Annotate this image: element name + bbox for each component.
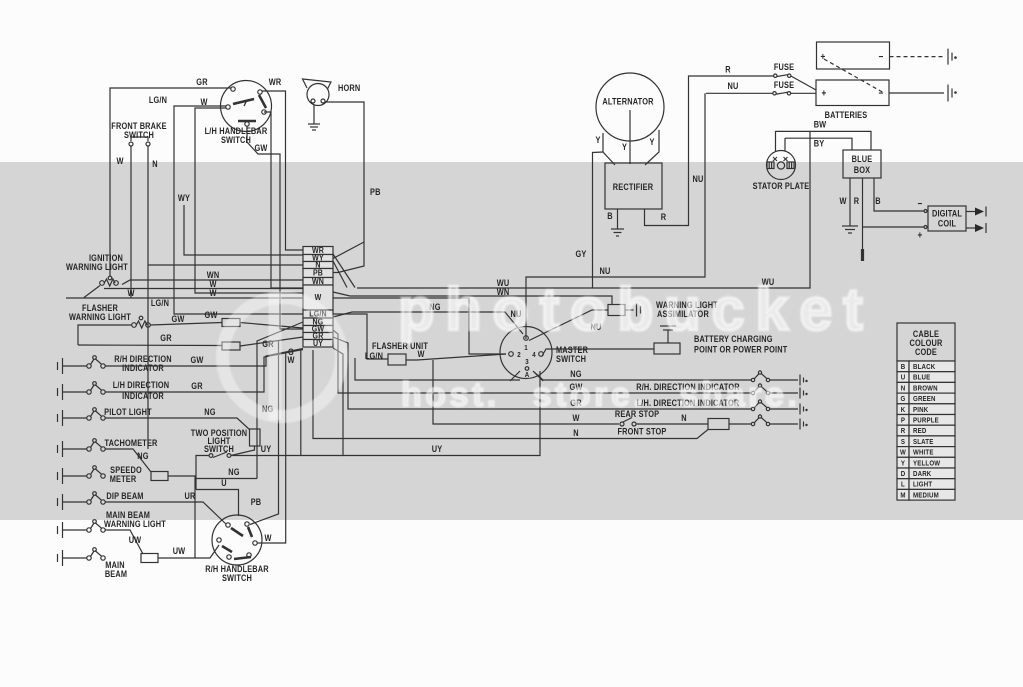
terminal strip connector block [303, 247, 333, 255]
svg-text:COIL: COIL [938, 219, 956, 229]
wire GR from L/H switch [110, 88, 231, 276]
svg-text:W: W [264, 533, 271, 543]
svg-text:ALTERNATOR: ALTERNATOR [602, 97, 653, 107]
svg-text:GR: GR [196, 77, 207, 87]
main beam row [57, 554, 59, 562]
svg-text:+: + [822, 88, 827, 99]
svg-text:R: R [901, 428, 906, 436]
svg-text:BROWN: BROWN [913, 385, 938, 393]
svg-text:WHITE: WHITE [913, 449, 934, 457]
wire N from front brake switch to strip [147, 146, 149, 449]
wire R from rectifier to fuse [645, 76, 774, 226]
warning light assimilator A1 [608, 305, 625, 316]
stator plate [767, 151, 796, 180]
svg-text:PB: PB [251, 497, 262, 507]
svg-text:RED: RED [913, 428, 926, 436]
svg-text:K: K [901, 406, 906, 414]
fuse F2 [773, 92, 776, 95]
wire NG to two position switch [105, 418, 250, 430]
svg-text:SWITCH: SWITCH [556, 354, 586, 364]
wire NU from fuse [706, 92, 773, 94]
svg-text:N: N [152, 159, 157, 169]
svg-text:LG/N: LG/N [151, 298, 169, 308]
wire UW to R/H switch [158, 545, 219, 558]
pilot light row [57, 414, 59, 422]
L/H direction indicator lamp row [57, 388, 59, 396]
wire to flasher lamp left lead [78, 325, 132, 345]
wire NG from strip to master switch [333, 312, 523, 334]
svg-text:NU: NU [728, 81, 739, 91]
svg-text:N: N [681, 413, 686, 423]
svg-text:G: G [901, 396, 906, 404]
svg-text:NG: NG [137, 451, 148, 461]
svg-text:S: S [901, 438, 905, 446]
svg-text:P: P [901, 417, 905, 425]
wire R from blue box down [862, 178, 864, 250]
battery B2 (lower) [816, 80, 889, 106]
tachometer row [57, 445, 59, 453]
wire WN to assimilator [333, 292, 612, 305]
wire GR row [105, 350, 303, 393]
svg-text:GW: GW [254, 143, 267, 153]
svg-text:−: − [879, 51, 884, 62]
svg-text:PILOT LIGHT: PILOT LIGHT [104, 407, 152, 417]
wire GR row rear L/H direction indicator [333, 337, 751, 409]
svg-text:Y: Y [595, 135, 600, 145]
svg-text:W: W [209, 288, 216, 298]
svg-text:YELLOW: YELLOW [913, 460, 941, 468]
svg-text:R: R [854, 196, 859, 206]
wire diagonal from PB riser to strip [333, 242, 364, 259]
battery B1 (upper) [817, 42, 890, 69]
svg-text:3: 3 [525, 359, 529, 367]
svg-text:WARNING LIGHT: WARNING LIGHT [66, 262, 128, 272]
svg-text:B: B [875, 196, 880, 206]
svg-text:UY: UY [313, 338, 324, 348]
wire B from blue box to coil - [874, 178, 924, 211]
horn ground [313, 105, 315, 124]
ignition lamp left lead [84, 286, 100, 298]
wire GW via connector [150, 323, 222, 326]
svg-text:WY: WY [178, 193, 191, 203]
svg-text:N: N [901, 385, 906, 393]
svg-text:WR: WR [269, 77, 282, 87]
main beam warning light row [57, 526, 59, 534]
svg-text:BATTERIES: BATTERIES [825, 110, 868, 120]
dip beam row [57, 498, 59, 506]
master switch bottom leads [510, 371, 520, 381]
wire NG from speedo [168, 476, 195, 558]
svg-text:N: N [573, 428, 578, 438]
svg-text:WARNING LIGHT: WARNING LIGHT [69, 312, 131, 322]
battery earth upper (dashed) [890, 56, 945, 58]
svg-text:U: U [221, 478, 226, 488]
svg-text:INDICATOR: INDICATOR [122, 391, 164, 401]
wire GY from alternator [593, 152, 604, 288]
svg-text:NG: NG [204, 407, 215, 417]
svg-text:DIP BEAM: DIP BEAM [106, 491, 143, 501]
svg-text:TACHOMETER: TACHOMETER [104, 438, 157, 448]
rectifier ground B [617, 209, 619, 229]
svg-text:UR: UR [185, 491, 196, 501]
svg-text:DIGITAL: DIGITAL [932, 209, 962, 219]
battery charging point socket [660, 325, 676, 327]
svg-text:W: W [127, 288, 134, 298]
svg-text:1: 1 [524, 345, 528, 353]
wire PB to R/H switch [250, 340, 279, 525]
svg-text:UY: UY [261, 444, 272, 454]
wire U to R/H handlebar switch [196, 490, 239, 517]
wire PB from horn to strip [325, 102, 364, 273]
wire from strip bottom to UY row [300, 349, 302, 456]
svg-text:W: W [116, 156, 123, 166]
wire WN to strip [122, 280, 303, 285]
svg-text:PURPLE: PURPLE [913, 417, 939, 425]
wire W lower to strip W cell [66, 297, 303, 299]
svg-text:SLATE: SLATE [913, 438, 934, 446]
svg-text:BLACK: BLACK [913, 363, 935, 371]
wire to coil + [863, 226, 925, 228]
svg-text:WARNING LIGHT: WARNING LIGHT [104, 519, 166, 529]
svg-text:UW: UW [173, 546, 186, 556]
svg-text:−: − [879, 88, 884, 99]
wire W from front brake switch [130, 146, 132, 298]
speedo meter row [57, 472, 59, 480]
battery dashed link [824, 59, 884, 93]
wire LG/N from L/H switch to strip [174, 106, 303, 314]
wire W from R/H switch [258, 352, 286, 543]
svg-text:W: W [287, 355, 294, 365]
svg-text:host. store. share.: host. store. share. [401, 376, 800, 414]
svg-text:4: 4 [532, 352, 536, 360]
wire W from blue box to ground [849, 178, 851, 226]
rectifier U3 [605, 163, 662, 209]
wire NG horizontal [195, 478, 257, 480]
svg-text:SWITCH: SWITCH [124, 130, 154, 140]
svg-text:CODE: CODE [915, 347, 937, 357]
wire W row rear stop [433, 360, 619, 424]
svg-text:BW: BW [814, 120, 827, 130]
svg-text:R: R [725, 65, 730, 75]
svg-text:W: W [900, 449, 906, 457]
R/H handlebar switch U2 [212, 515, 262, 565]
wire to two position switch left contact [196, 456, 209, 490]
svg-text:photobucket: photobucket [398, 276, 873, 343]
wire WY to strip [184, 205, 303, 255]
svg-text:R: R [661, 212, 666, 222]
svg-text:GR: GR [160, 333, 171, 343]
svg-text:W: W [839, 196, 846, 206]
svg-text:FUSE: FUSE [774, 62, 795, 72]
svg-text:L: L [901, 481, 905, 489]
svg-text:POINT OR POWER POINT: POINT OR POWER POINT [694, 345, 787, 355]
wire W from L/H switch right pin [264, 112, 303, 288]
svg-text:UY: UY [432, 444, 443, 454]
watermark grey band [0, 162, 1023, 520]
svg-text:BLUE: BLUE [852, 154, 873, 164]
svg-text:W: W [417, 349, 424, 359]
svg-text:W: W [572, 413, 579, 423]
svg-text:RECTIFIER: RECTIFIER [613, 182, 653, 192]
svg-text:+: + [821, 51, 826, 62]
svg-text:STATOR PLATE: STATOR PLATE [753, 181, 810, 191]
svg-text:METER: METER [110, 474, 137, 484]
svg-text:BLUE: BLUE [913, 374, 931, 382]
svg-text:BY: BY [814, 139, 825, 149]
horn H1 [307, 84, 329, 106]
svg-text:HORN: HORN [338, 83, 360, 93]
svg-text:BEAM: BEAM [105, 569, 127, 579]
blue box U4 [843, 150, 881, 178]
svg-text:Y: Y [622, 142, 627, 152]
wire NG diagonal [105, 449, 151, 472]
svg-text:GREEN: GREEN [913, 396, 936, 404]
wire NG row to rear R/H indicator [355, 358, 520, 380]
svg-text:SWITCH: SWITCH [204, 444, 234, 454]
digital coil T1 [928, 206, 966, 231]
svg-text:PB: PB [370, 187, 381, 197]
battery earth lower [889, 92, 944, 94]
svg-text:SWITCH: SWITCH [222, 573, 252, 583]
wire UR to R/H switch [105, 502, 226, 524]
svg-text:NG: NG [228, 467, 239, 477]
junction diagonals strip to WU [333, 254, 355, 288]
svg-text:−: − [918, 198, 923, 209]
R/H direction indicator lamp row [57, 362, 59, 370]
svg-text:BOX: BOX [854, 165, 871, 175]
svg-text:NU: NU [600, 266, 611, 276]
svg-text:UW: UW [129, 535, 142, 545]
svg-text:+: + [918, 230, 923, 241]
fuse F1 [774, 74, 777, 77]
wire NU to assimilator [529, 310, 608, 341]
svg-text:Y: Y [649, 137, 654, 147]
wire UY row [231, 348, 343, 456]
svg-text:GY: GY [576, 249, 587, 259]
svg-text:GW: GW [171, 314, 184, 324]
svg-text:B: B [607, 211, 612, 221]
svg-text:GW: GW [204, 310, 217, 320]
svg-text:L/H DIRECTION: L/H DIRECTION [113, 380, 170, 390]
wire UW diagonal [105, 530, 143, 554]
wire NG from strip NG cell through switch body [257, 322, 303, 479]
master switch S3 [500, 327, 552, 379]
wire BW [776, 131, 872, 150]
wire GW row rear R/H direction indicator [333, 330, 751, 393]
wire GR via connector [78, 344, 222, 347]
svg-text:WN: WN [312, 276, 324, 286]
wire W from strip to master switch pin 2 [333, 298, 506, 354]
main beam connector [141, 554, 158, 563]
svg-text:Y: Y [901, 460, 905, 468]
wire BY [785, 138, 852, 150]
svg-text:M: M [900, 492, 905, 500]
wire GW row [105, 349, 303, 367]
svg-text:D: D [901, 470, 906, 478]
photobucket watermark logo ring [0, 0, 1, 1]
svg-text:B: B [901, 363, 906, 371]
svg-text:MEDIUM: MEDIUM [913, 492, 939, 500]
svg-text:NU: NU [693, 174, 704, 184]
wire WR from L/H switch to strip [262, 91, 303, 250]
svg-text:2: 2 [517, 352, 521, 360]
speedo connector [151, 472, 168, 481]
svg-text:LG/N: LG/N [149, 95, 167, 105]
alternator G1 [596, 73, 664, 141]
wire WU long run [357, 131, 810, 288]
svg-text:INDICATOR: INDICATOR [122, 363, 164, 373]
svg-text:GW: GW [190, 355, 203, 365]
coil HT leads [966, 211, 976, 213]
wire GW from L/H switch to strip [247, 126, 303, 329]
svg-text:LIGHT: LIGHT [913, 481, 933, 489]
svg-text:PINK: PINK [913, 406, 928, 414]
svg-text:LG/N: LG/N [365, 351, 383, 361]
wire W to strip W cell [104, 288, 303, 290]
svg-text:GR: GR [191, 381, 202, 391]
svg-text:DARK: DARK [913, 470, 931, 478]
svg-text:U: U [901, 374, 906, 382]
wire NU master switch riser [526, 93, 705, 339]
svg-text:FUSE: FUSE [774, 80, 795, 90]
wire W from L/H switch left pin [195, 108, 303, 293]
L/H handlebar switch U1 [221, 81, 272, 132]
cable colour code table [897, 323, 955, 361]
wire N row front stop [313, 350, 708, 439]
svg-text:FRONT STOP: FRONT STOP [617, 427, 666, 437]
